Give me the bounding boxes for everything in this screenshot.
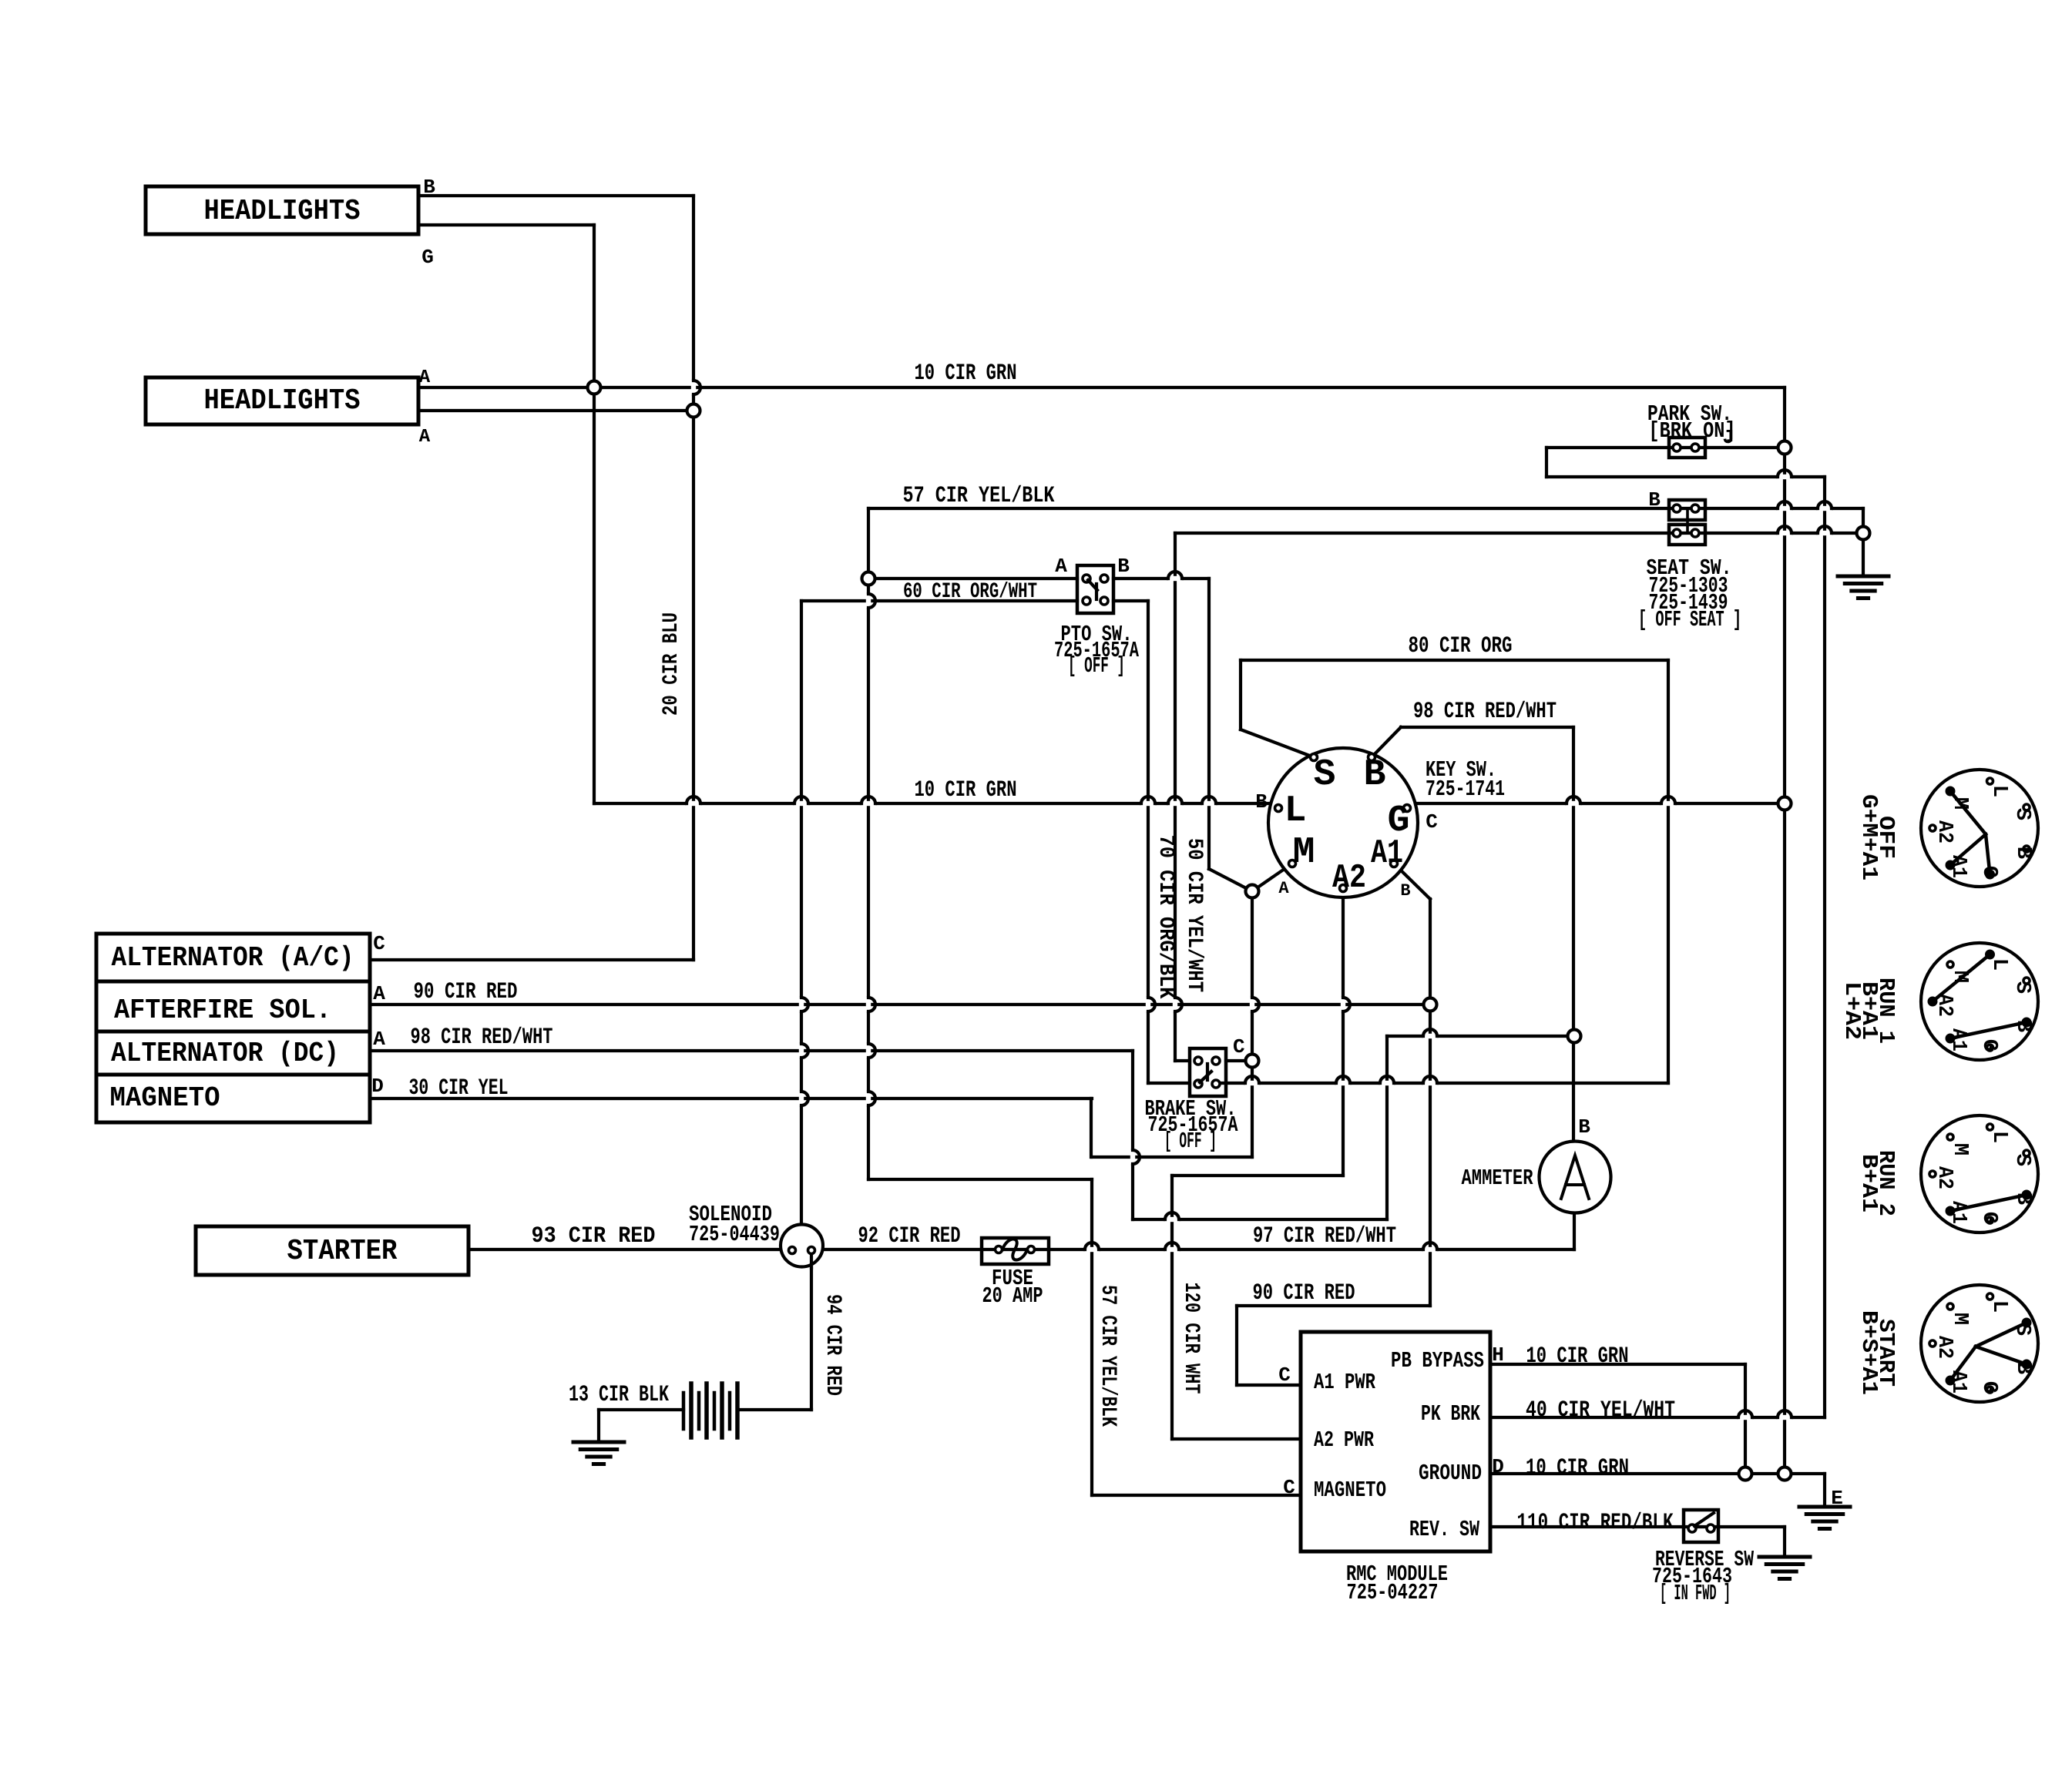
svg-text:B+A1: B+A1	[1856, 1154, 1882, 1213]
svg-text:50 CIR YEL/WHT: 50 CIR YEL/WHT	[1182, 838, 1206, 992]
svg-text:98 CIR RED/WHT: 98 CIR RED/WHT	[1413, 699, 1557, 725]
svg-text:57 CIR YEL/BLK: 57 CIR YEL/BLK	[903, 483, 1055, 509]
svg-text:A2 PWR: A2 PWR	[1314, 1427, 1374, 1453]
svg-text:B: B	[2011, 847, 2034, 859]
svg-text:C: C	[1426, 810, 1438, 834]
svg-text:C: C	[373, 932, 385, 955]
svg-text:60 CIR ORG/WHT: 60 CIR ORG/WHT	[903, 580, 1037, 604]
svg-text:S: S	[1314, 754, 1336, 796]
svg-text:PB BYPASS: PB BYPASS	[1391, 1348, 1484, 1374]
svg-text:94 CIR RED: 94 CIR RED	[821, 1294, 845, 1396]
svg-text:90 CIR RED: 90 CIR RED	[414, 979, 518, 1005]
svg-text:A: A	[373, 1028, 385, 1051]
svg-text:[ IN FWD ]: [ IN FWD ]	[1660, 1581, 1731, 1606]
svg-text:A: A	[419, 367, 431, 388]
svg-text:B: B	[1117, 555, 1130, 578]
svg-text:G: G	[1977, 1212, 2000, 1224]
svg-text:57 CIR YEL/BLK: 57 CIR YEL/BLK	[1096, 1285, 1120, 1427]
svg-text:HEADLIGHTS: HEADLIGHTS	[204, 384, 361, 418]
svg-text:S: S	[2010, 1154, 2033, 1166]
svg-text:STARTER: STARTER	[287, 1235, 398, 1268]
svg-text:G+M+A1: G+M+A1	[1856, 794, 1882, 880]
svg-text:A2: A2	[1933, 1166, 1956, 1189]
svg-text:A2: A2	[1933, 1336, 1956, 1359]
svg-text:30 CIR YEL: 30 CIR YEL	[409, 1075, 509, 1102]
svg-text:90 CIR RED: 90 CIR RED	[1253, 1280, 1355, 1306]
svg-text:A: A	[1278, 879, 1289, 898]
svg-text:M: M	[1293, 832, 1315, 874]
svg-text:S: S	[2010, 808, 2033, 820]
svg-text:10 CIR GRN: 10 CIR GRN	[915, 777, 1017, 803]
svg-text:M: M	[1948, 1143, 1971, 1156]
svg-text:L+A2: L+A2	[1839, 981, 1865, 1040]
svg-text:ALTERNATOR (A/C): ALTERNATOR (A/C)	[112, 942, 354, 974]
svg-text:L: L	[1987, 1300, 2010, 1313]
svg-text:98 CIR RED/WHT: 98 CIR RED/WHT	[411, 1025, 553, 1051]
svg-text:MAGNETO: MAGNETO	[110, 1082, 220, 1114]
svg-text:725-1741: 725-1741	[1426, 776, 1505, 802]
svg-text:A1 PWR: A1 PWR	[1314, 1370, 1375, 1395]
svg-text:PK BRK: PK BRK	[1421, 1401, 1480, 1427]
svg-text:40 CIR YEL/WHT: 40 CIR YEL/WHT	[1526, 1397, 1675, 1424]
svg-text:H: H	[1492, 1343, 1504, 1367]
svg-text:A1: A1	[1946, 1201, 1970, 1224]
svg-text:93 CIR RED: 93 CIR RED	[532, 1223, 656, 1249]
svg-text:10 CIR GRN: 10 CIR GRN	[1526, 1455, 1629, 1481]
svg-text:97 CIR RED/WHT: 97 CIR RED/WHT	[1253, 1223, 1396, 1249]
svg-text:B: B	[423, 176, 435, 199]
svg-text:B: B	[2011, 1362, 2034, 1374]
svg-text:B: B	[1364, 754, 1386, 796]
svg-text:120 CIR WHT: 120 CIR WHT	[1179, 1283, 1203, 1394]
svg-text:20 CIR BLU: 20 CIR BLU	[660, 612, 683, 716]
svg-text:L: L	[1987, 958, 2010, 971]
svg-text:M: M	[1948, 971, 1971, 983]
svg-text:80 CIR ORG: 80 CIR ORG	[1409, 633, 1513, 659]
svg-text:M: M	[1948, 1313, 1971, 1325]
svg-text:B: B	[1578, 1115, 1590, 1139]
svg-text:[ OFF ]: [ OFF ]	[1068, 653, 1125, 679]
svg-text:[ OFF ]: [ OFF ]	[1164, 1129, 1217, 1154]
svg-text:B: B	[1400, 881, 1410, 901]
svg-text:10 CIR GRN: 10 CIR GRN	[1526, 1343, 1629, 1370]
svg-text:B+S+A1: B+S+A1	[1856, 1310, 1882, 1395]
svg-text:AFTERFIRE SOL.: AFTERFIRE SOL.	[114, 995, 331, 1026]
svg-text:D: D	[1492, 1455, 1504, 1478]
svg-text:13 CIR BLK: 13 CIR BLK	[569, 1382, 669, 1408]
svg-text:D: D	[371, 1075, 384, 1098]
svg-text:AMMETER: AMMETER	[1462, 1166, 1533, 1191]
svg-text:C: C	[1233, 1035, 1245, 1058]
svg-text:725-04439: 725-04439	[689, 1222, 780, 1247]
svg-text:L: L	[1285, 790, 1307, 832]
svg-text:92 CIR RED: 92 CIR RED	[858, 1223, 961, 1249]
svg-text:ALTERNATOR (DC): ALTERNATOR (DC)	[111, 1038, 339, 1069]
svg-text:A: A	[373, 982, 385, 1005]
svg-text:E: E	[1831, 1487, 1843, 1510]
svg-text:B: B	[1648, 488, 1661, 512]
svg-text:S: S	[2010, 1323, 2033, 1336]
svg-text:B: B	[1255, 790, 1268, 813]
svg-text:A: A	[419, 427, 431, 448]
svg-text:[ OFF SEAT ]: [ OFF SEAT ]	[1638, 607, 1741, 632]
svg-text:A2: A2	[1933, 994, 1956, 1017]
svg-text:A2: A2	[1933, 820, 1956, 844]
svg-text:A2: A2	[1332, 859, 1366, 897]
svg-text:G: G	[1977, 1381, 2000, 1394]
svg-text:A1: A1	[1946, 1028, 1970, 1052]
svg-text:REV. SW: REV. SW	[1409, 1517, 1479, 1542]
svg-text:10 CIR GRN: 10 CIR GRN	[915, 361, 1017, 387]
svg-text:GROUND: GROUND	[1419, 1461, 1482, 1486]
svg-text:C: C	[1278, 1363, 1291, 1387]
svg-text:S: S	[2010, 981, 2033, 994]
svg-text:L: L	[1987, 1131, 2010, 1143]
svg-text:A1: A1	[1946, 855, 1970, 878]
svg-text:110 CIR RED/BLK: 110 CIR RED/BLK	[1517, 1510, 1674, 1536]
svg-text:B: B	[2011, 1192, 2034, 1205]
svg-text:A1: A1	[1371, 834, 1403, 873]
svg-text:HEADLIGHTS: HEADLIGHTS	[204, 195, 361, 228]
svg-text:L: L	[1987, 785, 2010, 797]
svg-text:B: B	[2011, 1020, 2034, 1032]
svg-text:J: J	[1722, 426, 1735, 449]
svg-text:A1: A1	[1946, 1370, 1970, 1394]
svg-text:G: G	[421, 246, 434, 269]
svg-text:M: M	[1948, 797, 1971, 810]
svg-text:725-04227: 725-04227	[1347, 1580, 1439, 1605]
svg-text:G: G	[1977, 866, 2000, 878]
svg-text:C: C	[1283, 1476, 1295, 1499]
svg-text:A: A	[1055, 555, 1067, 578]
svg-text:MAGNETO: MAGNETO	[1314, 1478, 1386, 1503]
svg-text:70 CIR ORG/BLK: 70 CIR ORG/BLK	[1154, 835, 1177, 999]
svg-text:20 AMP: 20 AMP	[982, 1283, 1043, 1309]
svg-text:G: G	[1977, 1039, 2000, 1052]
